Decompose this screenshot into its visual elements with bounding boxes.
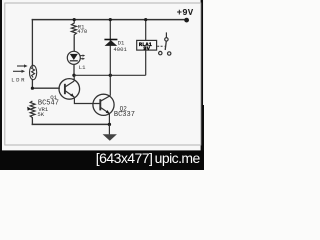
contact circle left	[159, 51, 162, 54]
svg-text:BC337: BC337	[114, 111, 135, 119]
LED arrows	[80, 54, 85, 60]
svg-text:9V: 9V	[143, 45, 150, 52]
contact moving arm	[165, 41, 166, 50]
LED L1	[67, 51, 80, 64]
wire LDR branch top	[31, 20, 33, 66]
wire LDR to node	[31, 80, 33, 89]
LDR component	[29, 65, 36, 79]
node junction dot A	[72, 74, 75, 77]
svg-text:+9V: +9V	[177, 8, 194, 18]
+9V terminal dot	[184, 18, 189, 23]
svg-text:4001: 4001	[113, 46, 127, 53]
contact circle right	[168, 52, 171, 55]
diode D1 wire (top rail to Q2 collector)	[101, 20, 111, 102]
right white sliver	[203, 0, 204, 105]
node junction dot B	[109, 74, 112, 77]
wire R1 to LED	[73, 37, 75, 52]
junction dot ground	[108, 123, 111, 126]
junction dot D1 on rail	[109, 18, 112, 21]
variable resistor VR1	[30, 101, 35, 119]
relay contact common terminal	[165, 32, 167, 37]
node wire line	[74, 74, 146, 76]
wire LED to node	[73, 64, 75, 75]
left black edge	[0, 0, 2, 170]
VR1 wiper arrow	[27, 107, 31, 111]
schematic frame	[5, 3, 201, 145]
transistor Q1	[59, 75, 99, 103]
svg-text:470: 470	[77, 28, 88, 35]
relay RLA1 box	[137, 40, 157, 50]
junction dot R1 on rail	[73, 18, 76, 21]
junction dot LDR/VR1 node	[31, 87, 34, 90]
svg-text:5K: 5K	[37, 111, 44, 118]
ground symbol	[103, 134, 117, 140]
diode D1	[104, 40, 117, 46]
junction dot relay on rail	[144, 18, 147, 21]
relay coil wire bottom	[145, 50, 147, 75]
svg-text:LDR: LDR	[11, 76, 26, 83]
wire VR1 bottom to rail	[31, 119, 33, 124]
ground stem wire	[108, 124, 110, 134]
transistor Q2	[93, 94, 114, 124]
top rail wire	[32, 19, 186, 21]
wire base Q1	[32, 87, 59, 89]
right black edge	[201, 0, 204, 170]
contact terminal circle top	[165, 38, 168, 41]
svg-text:L1: L1	[79, 64, 86, 71]
resistor R1	[71, 20, 76, 37]
bottom black bar	[0, 150, 204, 170]
paper background	[0, 0, 204, 170]
relay coil wire top	[145, 20, 147, 41]
relay linkage dashed	[157, 45, 164, 47]
svg-text:[643x477] upic.me: [643x477] upic.me	[96, 150, 201, 166]
LDR light arrows	[13, 64, 28, 73]
bottom rail wire	[32, 123, 109, 125]
